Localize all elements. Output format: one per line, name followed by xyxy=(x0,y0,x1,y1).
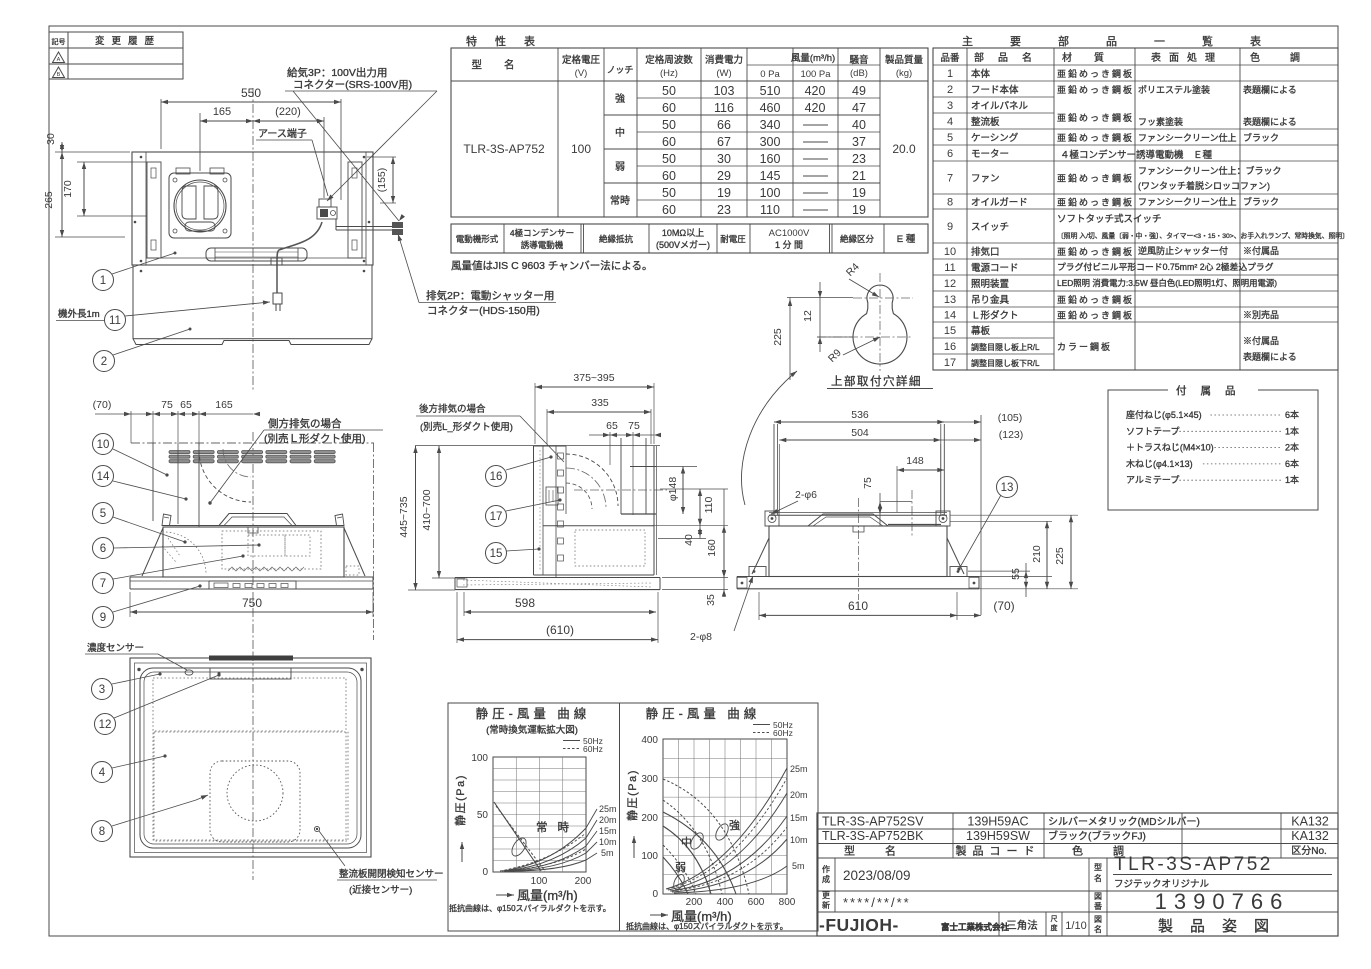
svg-text:ファンシークリーン仕上：ブラック: ファンシークリーン仕上：ブラック xyxy=(1138,165,1282,176)
svg-text:亜鉛めっき鋼板: 亜鉛めっき鋼板 xyxy=(1057,68,1134,79)
svg-text:139H59SW: 139H59SW xyxy=(966,829,1030,843)
svg-text:148: 148 xyxy=(906,455,924,467)
svg-text:付属品: 付属品 xyxy=(1176,384,1250,397)
svg-text:図: 図 xyxy=(1094,892,1102,901)
svg-text:50: 50 xyxy=(662,118,676,132)
svg-text:1本: 1本 xyxy=(1285,425,1299,436)
rear view dim 536 xyxy=(774,421,944,423)
svg-text:アルミテープ: アルミテープ xyxy=(1126,475,1179,485)
svg-text:静圧-風量 曲線: 静圧-風量 曲線 xyxy=(476,706,591,721)
front view: right boundary centerline xyxy=(373,443,375,640)
svg-text:50: 50 xyxy=(662,186,676,200)
svg-text:(610): (610) xyxy=(546,623,574,637)
keyhole centerlines xyxy=(817,336,913,338)
svg-text:〔照明 入/切、風量〔弱・中・強〕、タイマー<3・15・30: 〔照明 入/切、風量〔弱・中・強〕、タイマー<3・15・30>、お手入れランプ、… xyxy=(1057,231,1349,240)
svg-text:亜鉛めっき鋼板: 亜鉛めっき鋼板 xyxy=(1057,294,1134,305)
svg-text:逆風防止シャッター付: 逆風防止シャッター付 xyxy=(1138,245,1228,256)
svg-text:225: 225 xyxy=(1054,547,1066,565)
front view: duct chimney xyxy=(152,443,154,521)
svg-text:66: 66 xyxy=(717,118,731,132)
svg-text:60Hz: 60Hz xyxy=(583,744,603,754)
svg-text:37: 37 xyxy=(852,135,866,149)
svg-text:成: 成 xyxy=(822,874,830,884)
top view: top plate xyxy=(132,152,373,265)
svg-text:TLR-3S-AP752SV: TLR-3S-AP752SV xyxy=(822,815,924,829)
svg-text:750: 750 xyxy=(242,596,262,610)
svg-text:800: 800 xyxy=(779,897,796,908)
bottom view: balloon 12 xyxy=(95,714,116,735)
svg-text:10m: 10m xyxy=(599,837,617,847)
left graph duct resistance curves xyxy=(502,828,586,871)
top view: damper vanes xyxy=(182,186,196,219)
svg-text:0: 0 xyxy=(482,867,488,878)
top view: right hanger rail xyxy=(348,162,362,258)
svg-text:(ワンタッチ着脱シロッコファン): (ワンタッチ着脱シロッコファン) xyxy=(1138,180,1270,191)
svg-text:2: 2 xyxy=(947,84,953,96)
svg-text:4: 4 xyxy=(947,116,953,128)
svg-text:亜鉛めっき鋼板: 亜鉛めっき鋼板 xyxy=(1057,197,1134,208)
svg-text:550: 550 xyxy=(241,86,261,100)
top view: centerline xyxy=(252,88,254,392)
dim (155) xyxy=(367,156,396,158)
svg-text:60: 60 xyxy=(662,101,676,115)
bottom view: rounded face panel xyxy=(140,668,361,848)
balloon 1 xyxy=(93,270,114,291)
svg-text:49: 49 xyxy=(852,84,866,98)
svg-text:静圧(Pa): 静圧(Pa) xyxy=(453,774,467,826)
svg-text:アース端子: アース端子 xyxy=(258,127,307,140)
svg-text:10m: 10m xyxy=(790,835,808,845)
svg-text:504: 504 xyxy=(851,427,869,439)
svg-text:風量(m³/h): 風量(m³/h) xyxy=(517,888,578,903)
svg-text:(105): (105) xyxy=(998,412,1023,424)
side view dim 598 xyxy=(463,592,465,616)
svg-text:55: 55 xyxy=(1010,568,1022,580)
svg-text:40: 40 xyxy=(852,118,866,132)
svg-text:区分No.: 区分No. xyxy=(1291,845,1327,857)
bottom view: black top bar xyxy=(209,656,293,661)
svg-text:100: 100 xyxy=(641,851,658,862)
rear view dim 504 xyxy=(778,444,780,512)
bottom view: temperature sensor xyxy=(185,670,193,675)
side view: height dim 410~700 xyxy=(438,446,440,578)
svg-text:7: 7 xyxy=(947,173,953,185)
svg-text:21: 21 xyxy=(852,169,866,183)
svg-text:16: 16 xyxy=(944,341,956,353)
svg-text:9: 9 xyxy=(100,612,106,624)
svg-text:材質: 材質 xyxy=(1062,51,1126,64)
svg-text:ファンシークリーン仕上: ファンシークリーン仕上 xyxy=(1138,196,1237,207)
svg-text:側方排気の場合: 側方排気の場合 xyxy=(268,417,342,430)
side view: rim left end cap xyxy=(457,579,467,587)
svg-text:耐電圧: 耐電圧 xyxy=(720,234,746,244)
svg-text:表題欄による: 表題欄による xyxy=(1243,116,1297,127)
svg-text:60Hz: 60Hz xyxy=(773,728,793,738)
svg-text:Ｌ形ダクト: Ｌ形ダクト xyxy=(971,310,1019,322)
svg-text:145: 145 xyxy=(760,169,781,183)
svg-text:8: 8 xyxy=(99,826,105,838)
top view: power plug xyxy=(273,293,282,304)
svg-text:変更履歴: 変更履歴 xyxy=(95,35,161,47)
svg-text:17: 17 xyxy=(944,357,956,369)
svg-text:上部取付穴詳細: 上部取付穴詳細 xyxy=(831,374,922,388)
curved leader to keyhole detail xyxy=(741,371,797,505)
side view: height dim 445~735 xyxy=(415,445,660,447)
svg-text:200: 200 xyxy=(641,813,658,824)
svg-text:12: 12 xyxy=(802,310,814,322)
svg-text:510: 510 xyxy=(760,84,781,98)
svg-text:410~700: 410~700 xyxy=(421,489,433,530)
svg-text:TLR-3S-AP752BK: TLR-3S-AP752BK xyxy=(822,829,924,843)
svg-text:※別売品: ※別売品 xyxy=(1243,309,1279,320)
svg-text:200: 200 xyxy=(686,897,703,908)
svg-text:ポリエステル塗装: ポリエステル塗装 xyxy=(1138,84,1210,95)
svg-text:表題欄による: 表題欄による xyxy=(1243,84,1297,95)
svg-text:75: 75 xyxy=(161,399,173,411)
side view: duct cover strip xyxy=(533,446,535,575)
svg-text:(dB): (dB) xyxy=(850,68,868,79)
svg-text:50: 50 xyxy=(662,84,676,98)
top view: front panel below plate xyxy=(133,265,372,339)
svg-text:照明装置: 照明装置 xyxy=(971,278,1009,290)
rear view dim 610 xyxy=(758,592,760,620)
svg-text:47: 47 xyxy=(852,101,866,115)
left graph grid xyxy=(493,757,586,872)
svg-text:2本: 2本 xyxy=(1285,442,1299,453)
dim 30 xyxy=(61,142,63,152)
svg-text:色調: 色調 xyxy=(1250,51,1330,64)
rear view: feet xyxy=(749,567,766,577)
svg-text:(Hz): (Hz) xyxy=(660,68,678,79)
svg-text:常時: 常時 xyxy=(536,821,579,834)
svg-text:絶縁区分: 絶縁区分 xyxy=(840,234,875,244)
front view: side skirts xyxy=(142,528,163,576)
balloon 11 xyxy=(105,310,126,331)
svg-text:1/10: 1/10 xyxy=(1065,920,1086,932)
top view: cord clamp xyxy=(271,258,282,265)
svg-text:名: 名 xyxy=(1094,873,1102,883)
svg-text:B: B xyxy=(57,72,61,78)
svg-text:5: 5 xyxy=(100,508,106,520)
svg-text:60: 60 xyxy=(662,135,676,149)
bottom view: balloon 8 xyxy=(92,821,113,842)
svg-text:(近接センサー): (近接センサー) xyxy=(349,884,412,896)
rear view: skirts xyxy=(752,538,769,574)
svg-text:2: 2 xyxy=(101,356,107,368)
svg-text:29: 29 xyxy=(717,169,731,183)
svg-text:強: 強 xyxy=(729,819,740,832)
svg-text:TLR-3S-AP752: TLR-3S-AP752 xyxy=(463,142,545,156)
revision triangle B xyxy=(53,67,65,78)
svg-text:品番: 品番 xyxy=(940,52,960,64)
side view: hood body xyxy=(653,446,655,575)
revision triangle A xyxy=(53,52,65,63)
svg-text:536: 536 xyxy=(851,409,869,421)
rear view: handle profile xyxy=(808,514,888,526)
svg-text:名: 名 xyxy=(1094,924,1102,934)
side view dim 375~395 xyxy=(534,383,536,444)
svg-text:電源コード: 電源コード xyxy=(971,263,1019,274)
svg-text:ソフトタッチ式スイッチ: ソフトタッチ式スイッチ xyxy=(1057,213,1162,225)
svg-text:常時: 常時 xyxy=(610,194,630,207)
dim 170 xyxy=(77,161,147,163)
svg-text:表題欄による: 表題欄による xyxy=(1243,351,1297,362)
svg-text:濃度センサー: 濃度センサー xyxy=(87,642,144,654)
svg-text:25m: 25m xyxy=(599,804,617,814)
svg-text:103: 103 xyxy=(714,84,735,98)
svg-text:(常時換気運転拡大図): (常時換気運転拡大図) xyxy=(486,724,578,736)
side view dim (610) xyxy=(456,592,458,643)
svg-text:抵抗曲線は、φ150スパイラルダクトを示す。: 抵抗曲線は、φ150スパイラルダクトを示す。 xyxy=(449,903,611,913)
rear view: center lines xyxy=(858,498,860,600)
svg-text:160: 160 xyxy=(760,152,781,166)
svg-text:ファン: ファン xyxy=(971,174,1000,185)
top view: exhaust connector wires xyxy=(336,226,392,228)
side view: small latch detail xyxy=(546,487,558,505)
rear view: duct cover verticals xyxy=(773,424,775,515)
svg-text:8: 8 xyxy=(947,197,953,209)
svg-text:0: 0 xyxy=(652,889,658,900)
svg-text:三角法: 三角法 xyxy=(1006,919,1038,932)
svg-text:1本: 1本 xyxy=(1285,474,1299,485)
front view dim 750 xyxy=(129,592,131,617)
svg-text:スイッチ: スイッチ xyxy=(971,222,1009,233)
svg-text:19: 19 xyxy=(717,186,731,200)
svg-text:型名: 型名 xyxy=(472,58,537,71)
side view: interior dotted xyxy=(539,450,541,570)
svg-text:****/**/**: ****/**/** xyxy=(843,895,911,910)
svg-text:10: 10 xyxy=(944,246,956,258)
svg-text:4極コンデンサー: 4極コンデンサー xyxy=(510,228,574,238)
svg-text:カラー鋼板: カラー鋼板 xyxy=(1057,341,1112,352)
svg-text:10MΩ以上: 10MΩ以上 xyxy=(662,228,704,238)
svg-text:(500Vメガー): (500Vメガー) xyxy=(656,240,710,250)
svg-text:製品コード: 製品コード xyxy=(956,844,1041,858)
svg-text:460: 460 xyxy=(760,101,781,115)
svg-text:165: 165 xyxy=(213,106,231,118)
svg-text:後方排気の場合: 後方排気の場合 xyxy=(419,403,486,415)
svg-text:フード本体: フード本体 xyxy=(971,84,1019,96)
svg-text:富士工業株式会社: 富士工業株式会社 xyxy=(941,922,1010,932)
svg-text:調整目隠し板下R/L: 調整目隠し板下R/L xyxy=(971,358,1040,368)
top view: duct opening assembly xyxy=(169,173,231,238)
rear view dim (105) (123) xyxy=(980,415,982,615)
svg-text:2-φ8: 2-φ8 xyxy=(690,631,712,643)
svg-text:2-φ6: 2-φ6 xyxy=(795,489,817,501)
front view: hood body xyxy=(163,527,344,577)
svg-text:265: 265 xyxy=(43,191,55,209)
svg-text:静圧-風量 曲線: 静圧-風量 曲線 xyxy=(646,706,761,721)
svg-text:静圧(Pa): 静圧(Pa) xyxy=(625,769,639,821)
svg-text:コネクター(HDS-150用): コネクター(HDS-150用) xyxy=(427,305,540,317)
svg-text:15m: 15m xyxy=(790,813,808,823)
side view dim 65 75 xyxy=(609,432,611,465)
svg-text:65: 65 xyxy=(180,399,192,411)
svg-text:116: 116 xyxy=(714,101,734,115)
svg-text:強: 強 xyxy=(615,92,625,105)
svg-text:弱: 弱 xyxy=(675,861,686,874)
revision history table xyxy=(49,32,183,79)
svg-text:ブラック: ブラック xyxy=(1243,196,1279,207)
svg-text:160: 160 xyxy=(706,539,718,557)
svg-text:225: 225 xyxy=(772,328,784,346)
svg-text:6本: 6本 xyxy=(1285,458,1299,469)
svg-text:200: 200 xyxy=(575,876,592,887)
svg-text:(220): (220) xyxy=(275,106,301,118)
svg-text:亜鉛めっき鋼板: 亜鉛めっき鋼板 xyxy=(1057,310,1134,321)
rear view dim 75 xyxy=(880,501,912,503)
svg-text:(kg): (kg) xyxy=(896,68,912,79)
svg-text:亜鉛めっき鋼板: 亜鉛めっき鋼板 xyxy=(1057,173,1134,184)
svg-text:100: 100 xyxy=(760,186,781,200)
parts table frame xyxy=(933,48,1338,370)
svg-text:新: 新 xyxy=(822,900,830,910)
svg-text:10: 10 xyxy=(97,439,110,451)
side view dim 160 xyxy=(723,526,725,577)
svg-text:19: 19 xyxy=(852,203,866,217)
front view: bottom rim xyxy=(130,576,373,578)
svg-text:電動機形式: 電動機形式 xyxy=(456,234,499,244)
characteristics table xyxy=(451,48,928,217)
front view: oil guard zigzag xyxy=(228,567,304,571)
svg-text:KA132: KA132 xyxy=(1291,829,1329,843)
svg-text:排気口: 排気口 xyxy=(971,246,1000,258)
svg-text:誘導電動機: 誘導電動機 xyxy=(521,240,564,250)
bottom view: filter dotted square and circle xyxy=(210,761,300,842)
svg-text:(155): (155) xyxy=(376,168,388,193)
svg-text:600: 600 xyxy=(748,897,765,908)
svg-text:60: 60 xyxy=(662,169,676,183)
svg-text:調整目隠し板上R/L: 調整目隠し板上R/L xyxy=(971,342,1040,352)
svg-text:598: 598 xyxy=(515,596,535,610)
svg-text:300: 300 xyxy=(641,774,658,785)
svg-text:35: 35 xyxy=(705,594,717,606)
svg-text:19: 19 xyxy=(852,186,866,200)
svg-text:ソフトテープ: ソフトテープ xyxy=(1126,426,1179,436)
side view: dashed elbow duct xyxy=(566,454,618,506)
svg-text:騒音: 騒音 xyxy=(849,54,868,66)
left graph legend xyxy=(563,740,580,742)
svg-text:AC1000V: AC1000V xyxy=(769,228,810,239)
top view: earth terminal connector xyxy=(319,199,331,207)
side view dim 35 xyxy=(662,577,728,579)
svg-text:吊り金具: 吊り金具 xyxy=(971,294,1010,306)
front view: louvre slots xyxy=(169,451,190,454)
side view dim 40 xyxy=(652,525,728,527)
svg-text:木ねじ(φ4.1×13): 木ねじ(φ4.1×13) xyxy=(1126,458,1193,469)
svg-text:A: A xyxy=(57,57,61,63)
svg-text:0 Pa: 0 Pa xyxy=(760,69,780,80)
svg-text:主要部品一覧表: 主要部品一覧表 xyxy=(962,34,1298,48)
keyhole detail: mounting hole outline xyxy=(853,285,907,364)
front view: left mounting hook xyxy=(162,514,171,526)
svg-text:※付属品: ※付属品 xyxy=(1243,336,1279,346)
svg-text:表面処理: 表面処理 xyxy=(1151,51,1223,64)
svg-text:コネクター(SRS-100V用): コネクター(SRS-100V用) xyxy=(293,79,412,91)
bottom view: screw dots xyxy=(137,668,140,671)
dim 550 xyxy=(160,99,162,149)
svg-text:４極コンデンサー誘導電動機 Ｅ種: ４極コンデンサー誘導電動機 Ｅ種 xyxy=(1060,149,1213,161)
svg-text:445~735: 445~735 xyxy=(398,496,410,537)
front view: right mounting hook xyxy=(335,514,344,526)
svg-text:1 分 間: 1 分 間 xyxy=(775,240,803,250)
svg-text:6: 6 xyxy=(100,543,106,555)
svg-text:整流板開閉検知センサー: 整流板開閉検知センサー xyxy=(339,868,444,880)
svg-text:モーター: モーター xyxy=(971,149,1009,160)
svg-text:ファンシークリーン仕上: ファンシークリーン仕上 xyxy=(1138,132,1237,143)
svg-text:20m: 20m xyxy=(790,790,808,800)
svg-text:(123): (123) xyxy=(999,429,1024,441)
svg-text:給気3P：100V出力用: 給気3P：100V出力用 xyxy=(287,66,387,79)
svg-text:絶縁抵抗: 絶縁抵抗 xyxy=(599,234,634,244)
svg-text:5m: 5m xyxy=(792,861,805,871)
accessories box xyxy=(1108,390,1318,510)
rear view: top plate and brackets xyxy=(769,514,947,516)
svg-text:15m: 15m xyxy=(599,826,617,836)
svg-text:100: 100 xyxy=(531,876,548,887)
left graph fan curve xyxy=(494,802,541,871)
bottom view: centerline xyxy=(252,652,254,880)
svg-text:プラグ付ビニル平形コード0.75mm² 2心 2極差込プ: プラグ付ビニル平形コード0.75mm² 2心 2極差込プラグ xyxy=(1057,261,1274,272)
svg-text:5m: 5m xyxy=(601,848,614,858)
svg-text:中: 中 xyxy=(681,836,692,849)
bottom view: balloon 3 xyxy=(92,679,113,700)
svg-text:16: 16 xyxy=(490,471,503,483)
svg-text:40: 40 xyxy=(683,534,695,546)
balloon 2 xyxy=(94,351,115,372)
svg-text:60: 60 xyxy=(662,203,676,217)
svg-text:1390766: 1390766 xyxy=(1155,889,1290,914)
right graph fan curves xyxy=(663,812,736,894)
svg-text:420: 420 xyxy=(805,101,826,115)
front view: switch panel xyxy=(209,581,296,589)
svg-text:12: 12 xyxy=(944,278,956,290)
svg-text:風量(m³/h): 風量(m³/h) xyxy=(791,53,835,64)
svg-text:E 種: E 種 xyxy=(897,234,916,245)
svg-text:100 Pa: 100 Pa xyxy=(800,69,831,80)
side view dim 110 xyxy=(660,488,728,490)
svg-text:4: 4 xyxy=(99,767,106,779)
side view dim 335 xyxy=(546,409,548,444)
svg-text:ブラック: ブラック xyxy=(1243,132,1279,143)
svg-text:オイルパネル: オイルパネル xyxy=(971,101,1029,112)
svg-text:65: 65 xyxy=(606,420,618,432)
svg-text:210: 210 xyxy=(1031,545,1043,563)
right graph resistance curves xyxy=(666,768,787,889)
svg-text:139H59AC: 139H59AC xyxy=(967,815,1028,829)
svg-text:23: 23 xyxy=(717,203,731,217)
side view: duct pipe verticals xyxy=(620,438,622,514)
motor spec table xyxy=(451,224,928,253)
front view: balloons xyxy=(93,434,114,455)
svg-text:100: 100 xyxy=(471,753,488,764)
rear view: bottom rim xyxy=(737,576,979,578)
svg-text:(70): (70) xyxy=(993,599,1014,613)
svg-text:14: 14 xyxy=(97,471,110,483)
side view: balloons 16 17 15 xyxy=(486,466,507,487)
svg-text:300: 300 xyxy=(760,135,781,149)
rear view dim 148 xyxy=(896,466,898,512)
svg-text:15: 15 xyxy=(944,325,956,337)
svg-text:ケーシング: ケーシング xyxy=(971,132,1019,144)
svg-text:LED照明 消費電力:3.5W 昼白色(LED照明1灯、照明: LED照明 消費電力:3.5W 昼白色(LED照明1灯、照明用電源) xyxy=(1057,278,1277,288)
svg-text:67: 67 xyxy=(717,135,731,149)
keyhole dim 12 xyxy=(819,282,821,352)
svg-text:消費電力: 消費電力 xyxy=(705,54,743,66)
svg-text:シルバーメタリック(MDシルバー): シルバーメタリック(MDシルバー) xyxy=(1048,816,1200,828)
svg-text:9: 9 xyxy=(947,221,953,233)
front view: handle hump xyxy=(219,514,296,526)
